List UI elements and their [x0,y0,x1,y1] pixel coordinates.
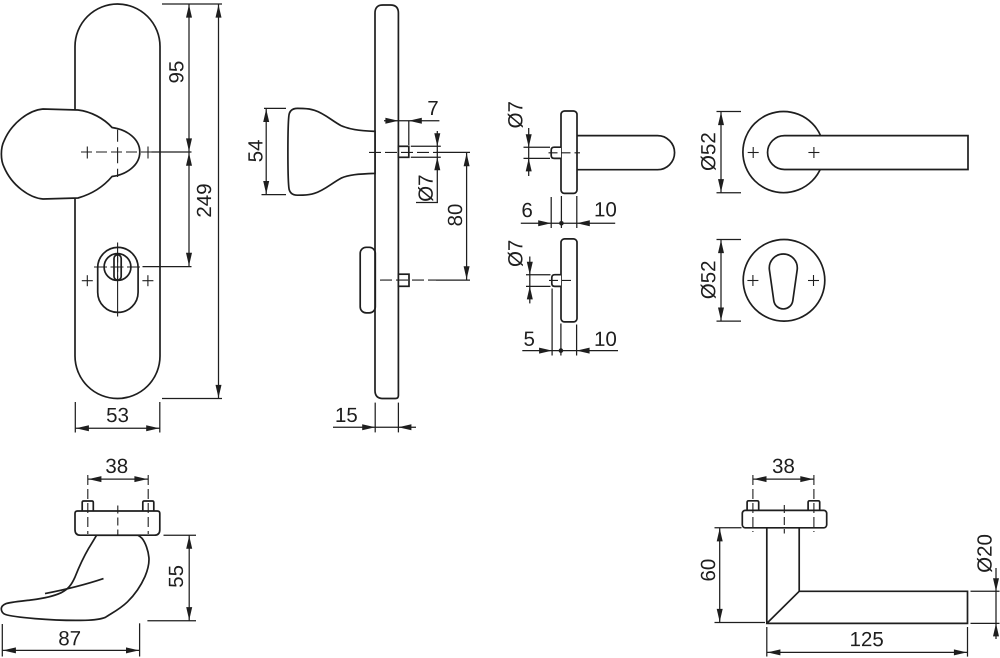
dim 54 (knob cap height) [248,108,286,194]
dim 38 (screw distance, lever) [753,459,814,482]
dim diam 7 (spindle) [416,131,440,203]
dim diam 7 (lower) [508,241,551,304]
spindle stub top extension [411,145,441,147]
screw cross right [142,275,153,286]
rose, lever profile view [742,510,826,527]
dim 60 (lever projection) [701,528,765,623]
screw cross left [82,275,93,286]
lever side view [577,136,675,170]
dim diam 52 (key rose) [701,240,741,322]
knob profile body [1,535,149,620]
screw cross right [808,147,819,158]
dim 15 (plate thickness) [333,403,416,433]
cylinder bore circle [104,254,131,281]
oval cylinder rosette [98,247,138,312]
stud left [82,501,93,511]
stud centreline left [752,475,754,532]
cylinder cover, side [360,247,375,313]
dim 7 (spindle projection) [384,101,439,145]
profile cylinder keyhole [769,254,797,309]
cylinder stub [552,275,561,287]
knob profile crease [45,579,104,594]
cylinder centreline side [380,279,470,281]
knob vertical centerline [117,130,119,177]
dim 249 (overall height) [197,4,222,399]
oval vertical centreline [117,243,119,317]
knob screw tick right [147,147,149,159]
dim 125 (lever length) [767,627,968,657]
extension line plate bottom [162,398,222,400]
dim 53 (plate width) [75,402,160,433]
dim 5 and 10 (key rose) [522,289,618,356]
rose centreline [783,505,785,534]
stud right [143,501,154,511]
plate centreline [117,506,119,543]
stud right [808,501,820,511]
security long plate, front view [75,4,160,399]
extension line knob centre to dims [152,151,192,153]
rose side view (lever) [561,111,577,193]
knob, front view [1,109,139,199]
cylinder stub, side [398,274,409,286]
dim diam 7 (upper) [508,102,550,176]
key slot [114,255,121,280]
dim 95 (top to knob centre) [169,4,192,152]
extension line cylinder centre to dim [143,266,192,268]
screw cross right [808,275,819,286]
short plate, knob profile view [75,511,160,535]
stud centreline right [147,475,149,534]
knob screw tick left [86,147,88,159]
spindle stub [551,147,561,158]
spindle centreline [549,152,581,154]
cylinder centreline [549,279,573,281]
dim 87 (knob length) [2,623,139,656]
stud left [747,501,759,511]
key slot dashed centreline [117,257,119,280]
spindle stub bottom extension [411,156,441,158]
stud centreline right [813,475,815,532]
dim diam 52 (lever rose) [701,112,741,193]
dim 80 (handle to cylinder) [448,152,470,280]
dim 6 and 10 (rose) [521,196,616,228]
key rose side view [561,239,577,322]
knob side view [288,108,375,195]
dim diam 20 (grip) [971,535,1000,639]
stud centreline left [87,475,89,534]
plate side view [375,5,398,399]
spindle stub, side [398,146,408,157]
dim knob-to-cylinder (unlabelled) [186,152,192,267]
screw cross left [747,275,758,286]
spindle centreline [369,151,470,153]
dim 55 (knob projection) [147,535,196,621]
dim 38 (screw distance, knob) [88,459,148,482]
extension line plate top [162,3,222,5]
cylinder horizontal centreline [94,266,143,268]
lever handle front view [768,136,968,170]
knob horizontal centerline [81,151,152,153]
screw cross left [748,147,759,158]
lever handle profile [767,528,968,624]
round rose front view [743,112,824,193]
round key rose front view [743,239,825,321]
